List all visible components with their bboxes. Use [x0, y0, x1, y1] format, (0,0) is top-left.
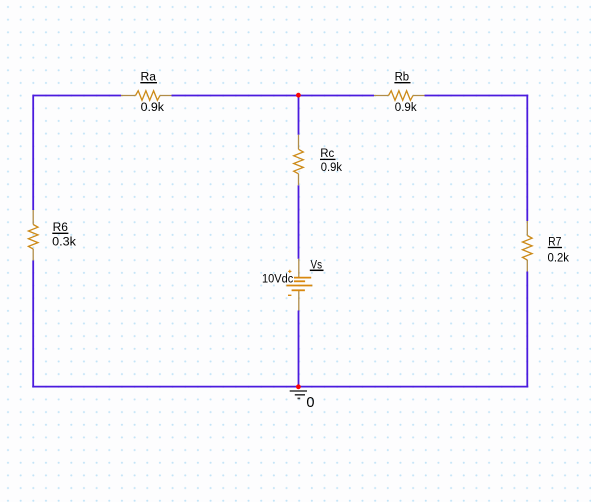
svg-text:0.9k: 0.9k: [141, 102, 165, 114]
wire junction to Rb: [299, 95, 375, 97]
svg-text:R7: R7: [548, 236, 561, 248]
wire middle (Rc to Vs): [298, 185, 300, 258]
label Rb: [394, 72, 410, 84]
voltage source Vs (DC battery): [286, 259, 312, 311]
svg-text:0: 0: [306, 395, 314, 411]
resistor R7: [523, 221, 533, 272]
label Ra: [140, 72, 157, 84]
wire middle lower (Vs to bottom junction): [298, 311, 300, 387]
svg-text:Rc: Rc: [320, 148, 334, 160]
junction node (top, Ra/Rb/Rc): [296, 93, 301, 98]
junction node (bottom, at ground): [296, 384, 301, 389]
svg-text:0.9k: 0.9k: [321, 162, 342, 174]
label R7: [548, 236, 562, 248]
wire bottom (ground rail): [32, 386, 528, 388]
wire left lower (R6 to bottom-left corner): [32, 261, 34, 388]
wire top-middle (Ra to junction): [172, 95, 299, 97]
wire top-right (Rb to right corner): [425, 95, 529, 97]
wire right lower (R7 to bottom-right corner): [526, 272, 528, 388]
wire middle upper (junction down to Rc): [298, 95, 300, 135]
wire left upper (top-left corner down to R6): [32, 95, 34, 210]
svg-text:Vs: Vs: [311, 259, 323, 271]
svg-text:Ra: Ra: [141, 72, 157, 84]
resistor Rc: [294, 135, 304, 186]
svg-text:0.2k: 0.2k: [548, 253, 570, 265]
svg-text:0.3k: 0.3k: [52, 237, 76, 249]
wire top-left (node between R6 and Ra): [33, 95, 121, 97]
ground 0: [290, 391, 307, 398]
svg-text:10Vdc: 10Vdc: [262, 273, 293, 285]
label Rc: [320, 148, 336, 160]
svg-text:0.9k: 0.9k: [395, 102, 417, 114]
label Vs: [310, 259, 324, 271]
resistor Rb: [374, 91, 425, 101]
label R6: [52, 222, 68, 234]
resistor R6: [28, 210, 38, 261]
wire right upper (top-right corner down to R7): [526, 95, 528, 221]
resistor Ra: [121, 91, 172, 101]
svg-text:R6: R6: [53, 222, 68, 234]
svg-text:Rb: Rb: [395, 72, 410, 84]
